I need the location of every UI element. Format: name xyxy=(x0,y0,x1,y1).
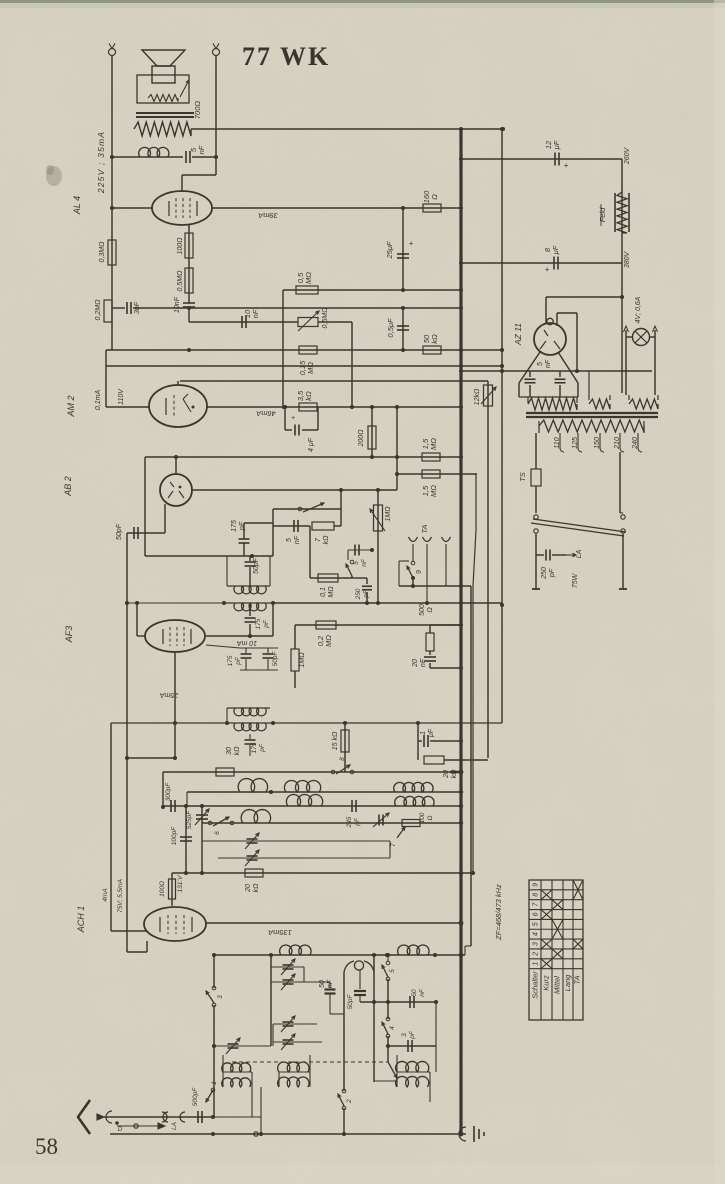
svg-text:3: 3 xyxy=(533,942,540,946)
svg-text:110: 110 xyxy=(554,437,561,448)
wire x163 down xyxy=(162,772,164,807)
transformer HV winding xyxy=(527,397,529,403)
svg-text:100: 100 xyxy=(419,812,426,823)
tube AB2 xyxy=(160,474,192,506)
wire line y772 xyxy=(163,771,450,773)
svg-text:4mA: 4mA xyxy=(102,888,109,901)
svg-text:pF: pF xyxy=(363,589,370,599)
svg-text:3: 3 xyxy=(401,1033,408,1037)
svg-text:Mittel: Mittel xyxy=(553,976,562,994)
svg-text:1: 1 xyxy=(211,1081,218,1085)
svg-text:kΩ: kΩ xyxy=(451,769,458,779)
svg-text:AB 2: AB 2 xyxy=(63,476,73,497)
svg-text:+: + xyxy=(545,265,550,274)
table crosses mittel xyxy=(552,949,563,959)
svg-text:100pF: 100pF xyxy=(171,826,178,845)
pilot lamp 4V 0,6A xyxy=(633,329,650,346)
tap 150 xyxy=(600,433,604,452)
wire AB2 right y490 xyxy=(192,489,397,491)
line y806 xyxy=(163,805,461,807)
capacitor 0,5uF xyxy=(402,308,404,350)
wire 5nF to right terminal xyxy=(192,156,216,158)
wire AZ11 cathode top xyxy=(545,297,547,324)
output transformer box xyxy=(137,75,189,103)
IFT2 coil bottom xyxy=(224,602,273,604)
tap 240 xyxy=(638,433,642,452)
wire AZ11 filament to W2 xyxy=(556,313,558,326)
svg-text:+: + xyxy=(291,415,295,422)
svg-text:260V: 260V xyxy=(624,147,631,166)
TA jack stems xyxy=(445,544,447,586)
capacitor 10nF xyxy=(183,302,195,304)
svg-text:5: 5 xyxy=(537,362,544,366)
line y823 xyxy=(202,822,461,824)
svg-text:7: 7 xyxy=(390,843,397,847)
line y955 xyxy=(214,954,465,956)
svg-text:77 WK: 77 WK xyxy=(242,42,330,71)
capacitor 5nF 2 xyxy=(348,549,372,551)
svg-text:1MΩ: 1MΩ xyxy=(385,506,392,522)
capacitor 50nF xyxy=(329,982,331,988)
svg-text:MΩ: MΩ xyxy=(429,485,438,497)
svg-text:MΩ: MΩ xyxy=(429,438,438,450)
svg-text:0,5μF: 0,5μF xyxy=(386,318,395,338)
switch 5 xyxy=(386,953,390,957)
svg-text:nF: nF xyxy=(361,558,368,567)
svg-text:0,2MΩ: 0,2MΩ xyxy=(95,299,102,321)
rung y526 5nF 7k xyxy=(273,525,310,527)
wire AL4 plate right xyxy=(212,207,461,209)
wire x145 avc xyxy=(144,457,146,556)
line y1046 3pF xyxy=(388,1045,436,1047)
svg-text:MΩ: MΩ xyxy=(306,362,315,374)
svg-text:5: 5 xyxy=(286,538,293,542)
oscillator box right xyxy=(373,955,375,1082)
svg-text:240: 240 xyxy=(632,437,639,450)
tap 125 xyxy=(578,433,582,452)
svg-text:10nF: 10nF xyxy=(174,296,181,313)
resistor 0,5M line y290 xyxy=(283,289,461,291)
resistor 1,5M lower xyxy=(422,470,440,478)
svg-text:210: 210 xyxy=(614,437,621,450)
svg-text:0,5MΩ: 0,5MΩ xyxy=(177,270,184,292)
resistor 50k xyxy=(423,346,441,354)
svg-text:5: 5 xyxy=(353,561,360,565)
tube ACH1 xyxy=(144,907,206,941)
wire AM2 vertical x106 xyxy=(105,366,107,407)
switch 1 xyxy=(211,1088,215,1092)
wire AB2 cathode down xyxy=(164,504,166,533)
svg-text:50: 50 xyxy=(411,989,418,997)
svg-text:50pF: 50pF xyxy=(253,557,260,574)
ground return line xyxy=(110,1133,466,1135)
svg-text:kΩ: kΩ xyxy=(304,391,313,401)
svg-text:TS: TS xyxy=(518,472,527,482)
wire line y625 0,2M xyxy=(295,624,461,626)
wire line y366 xyxy=(105,350,107,366)
coil bf2b xyxy=(286,794,322,806)
svg-text:2: 2 xyxy=(346,1099,353,1104)
svg-text:380V: 380V xyxy=(624,251,631,269)
trimmer pair lower xyxy=(273,1023,317,1025)
svg-text:MΩ: MΩ xyxy=(304,272,313,284)
oscillator coil xyxy=(344,961,354,972)
trimmer t5 xyxy=(214,1045,271,1047)
wire AF3 left xyxy=(137,635,145,637)
capacitor 100pF xyxy=(185,806,187,873)
transformer rect filament winding xyxy=(588,371,590,400)
svg-text:50pF: 50pF xyxy=(347,994,354,1010)
svg-text:Lang: Lang xyxy=(563,974,572,992)
svg-text:25mA: 25mA xyxy=(160,691,180,698)
IFT2 coil top xyxy=(227,585,270,587)
svg-text:Ω: Ω xyxy=(427,607,434,613)
svg-text:nF: nF xyxy=(251,309,260,318)
capacitor 5nF xyxy=(185,151,187,163)
line y873 xyxy=(172,872,473,874)
antenna line xyxy=(104,1116,213,1118)
svg-text:75W: 75W xyxy=(572,572,579,588)
coil osc a xyxy=(280,945,311,955)
svg-text:+: + xyxy=(564,161,569,170)
resistor 0,2M on rail xyxy=(104,300,112,322)
variable cap 525pF xyxy=(201,806,203,873)
svg-text:AF3: AF3 xyxy=(64,626,74,644)
wire AM2 plate right xyxy=(207,406,461,408)
svg-text:150: 150 xyxy=(594,437,601,449)
svg-text:1: 1 xyxy=(420,731,427,735)
resistor 0,15M xyxy=(299,346,317,354)
svg-text:Ω: Ω xyxy=(427,815,434,820)
coil row connectors xyxy=(222,1072,224,1087)
svg-text:175: 175 xyxy=(227,655,234,666)
wire x261 xyxy=(260,1087,262,1134)
mains leads xyxy=(535,534,537,589)
coil bf2c xyxy=(241,810,270,823)
svg-text:pF: pF xyxy=(235,656,242,666)
svg-text:6: 6 xyxy=(214,831,221,835)
IFT3 coil top xyxy=(227,707,270,709)
anode bar xyxy=(519,396,578,398)
svg-text:Kurz: Kurz xyxy=(542,975,551,991)
svg-text:300pF: 300pF xyxy=(165,782,172,801)
resistor 500 ohm xyxy=(429,625,431,633)
svg-text:kΩ: kΩ xyxy=(253,883,260,893)
IF transformer 2 cap 175pF xyxy=(243,523,245,539)
svg-text:20: 20 xyxy=(412,659,419,668)
svg-text:225V ; 35mA: 225V ; 35mA xyxy=(96,131,106,194)
svg-text:0,1: 0,1 xyxy=(320,587,327,597)
wire AL4 cathode left xyxy=(112,207,152,209)
mechanical link dashed xyxy=(232,1061,388,1063)
trimmer pair upper xyxy=(271,966,304,968)
svg-text:20: 20 xyxy=(245,884,252,893)
svg-text:kΩ: kΩ xyxy=(430,334,439,344)
volume potentiometer 1M xyxy=(377,490,379,603)
wire x187 xyxy=(186,792,188,806)
wire trimmer to plate line xyxy=(318,321,352,323)
svg-text:1MΩ: 1MΩ xyxy=(299,652,306,668)
svg-text:75V; 5,5mA: 75V; 5,5mA xyxy=(117,879,124,913)
capacitor 1uF xyxy=(417,723,419,741)
wire coil line to 5nF xyxy=(112,156,183,158)
resistor in speaker box xyxy=(148,95,178,102)
wire AZ11 anodes xyxy=(519,352,540,383)
wire y603 xyxy=(127,602,224,604)
left rail to cathode xyxy=(126,758,128,952)
field winding resistor primary xyxy=(134,122,191,136)
IFT3 coil bottom xyxy=(111,722,502,724)
resistor 100 ohm under AL4 xyxy=(188,225,190,303)
capacitor 10 nF xyxy=(241,316,243,328)
svg-text:2: 2 xyxy=(533,952,540,957)
wire ACH1 plate xyxy=(205,922,461,924)
mains switch xyxy=(534,515,538,519)
tube AL4 xyxy=(152,191,212,225)
svg-text:ACH 1: ACH 1 xyxy=(76,906,86,934)
svg-text:nF: nF xyxy=(294,535,301,544)
svg-text:4 μF: 4 μF xyxy=(308,437,315,452)
antenna lower line xyxy=(117,1125,158,1127)
left rail x127 xyxy=(126,533,128,758)
wire x430 bottom xyxy=(429,1087,431,1102)
capacitor 50pF af3 xyxy=(267,648,269,653)
svg-text:525pF: 525pF xyxy=(186,810,193,829)
potentiometer 12k xyxy=(487,381,489,758)
fuse TS xyxy=(535,433,537,469)
svg-text:100Ω: 100Ω xyxy=(177,237,184,255)
oscillator box left xyxy=(343,972,345,1082)
switch 9 xyxy=(412,544,414,561)
wire right terminal down xyxy=(215,56,217,175)
svg-text:AL 4: AL 4 xyxy=(72,196,82,215)
svg-text:6: 6 xyxy=(533,912,540,916)
wire y758 xyxy=(127,757,175,759)
wire tap210 to switch xyxy=(619,452,621,513)
wire ACH1 left xyxy=(110,723,112,931)
svg-text:3: 3 xyxy=(217,995,224,999)
AF3 cathode down xyxy=(174,652,176,758)
svg-text:5: 5 xyxy=(389,969,396,973)
svg-text:5: 5 xyxy=(533,922,540,926)
resistor 100ohm grid ACH1 xyxy=(171,873,173,906)
rectifier AZ11 xyxy=(534,323,566,355)
wire AM2 cathode left xyxy=(106,406,149,408)
svg-text:131:V: 131:V xyxy=(177,875,184,893)
svg-text:9: 9 xyxy=(416,570,423,574)
cathode bar xyxy=(240,647,278,649)
svg-text:pF: pF xyxy=(354,817,361,827)
wire x271 xyxy=(270,955,272,1046)
svg-text:0,1mA: 0,1mA xyxy=(95,390,102,411)
svg-text:250: 250 xyxy=(355,588,362,600)
transformer 4V winding xyxy=(628,395,630,400)
svg-text:175: 175 xyxy=(251,742,258,753)
wire line y381 AM2 grid xyxy=(177,381,179,385)
wire x214 chain xyxy=(213,955,215,988)
svg-text:200Ω: 200Ω xyxy=(358,429,365,448)
svg-text:AZ 11: AZ 11 xyxy=(513,323,523,346)
svg-text:12kΩ: 12kΩ xyxy=(474,388,481,405)
trimmer rung 1 xyxy=(202,840,390,842)
smoothing coil xyxy=(139,147,169,157)
tap 210 xyxy=(620,433,624,452)
svg-text:μF: μF xyxy=(428,728,435,738)
capacitor 500pF xyxy=(197,1111,199,1123)
capacitor 245pF xyxy=(351,800,353,812)
wire 260V rail x622 xyxy=(621,159,623,393)
terminal left xyxy=(109,49,116,56)
wire y556 xyxy=(145,555,273,557)
wire line y322 10nF2 xyxy=(189,321,298,323)
svg-text:110V: 110V xyxy=(118,388,125,405)
capacitor 3nF stub xyxy=(112,307,125,309)
switch 2 xyxy=(342,1089,346,1093)
table crosses ta xyxy=(573,939,583,949)
antenna jack symbols xyxy=(106,1111,112,1123)
resistor 20k bf xyxy=(245,869,263,877)
wire line y599 to right xyxy=(273,602,502,604)
wire x471 vertical xyxy=(470,586,472,946)
coil bf3b xyxy=(395,796,434,806)
svg-text:MΩ: MΩ xyxy=(324,635,333,647)
potentiometer 0,5M trimmer xyxy=(298,318,318,327)
switch x352 xyxy=(350,560,354,564)
capacitor 250pF xyxy=(366,578,368,584)
svg-text:Ω: Ω xyxy=(430,194,439,200)
tube AM2 xyxy=(149,385,207,427)
svg-text:μF: μF xyxy=(551,245,560,255)
capacitor 50pF osc xyxy=(359,970,361,989)
trimmer right xyxy=(378,815,380,826)
capacitor 175pF plate xyxy=(249,603,251,616)
switch 7 xyxy=(397,827,405,838)
svg-text:LA: LA xyxy=(576,549,583,558)
resistor 200 ohm xyxy=(371,407,373,457)
capacitor 175pF ift3 xyxy=(249,734,251,739)
svg-text:9: 9 xyxy=(533,883,540,887)
capacitor 300pF xyxy=(170,800,172,812)
switch 8 xyxy=(331,770,335,774)
svg-text:15 kΩ: 15 kΩ xyxy=(332,731,339,750)
wire B+ top line xyxy=(191,128,503,130)
wire line y457 xyxy=(145,456,461,458)
svg-text:46mA: 46mA xyxy=(256,409,276,418)
capacitor 25uF xyxy=(402,208,404,290)
svg-text:MΩ: MΩ xyxy=(328,586,335,598)
resistor 30k xyxy=(216,768,234,776)
svg-text:nF: nF xyxy=(545,359,552,368)
tap 110 xyxy=(560,433,564,452)
svg-text:nF: nF xyxy=(327,979,334,988)
coil bf1a xyxy=(238,779,267,792)
transformer core xyxy=(526,412,658,414)
tube AF3 xyxy=(145,620,205,652)
transformer core lines xyxy=(136,112,194,114)
resistor 1M af3 xyxy=(294,625,296,649)
resistor 100 ohm bf xyxy=(402,820,420,827)
resistor 15k xyxy=(344,723,346,772)
svg-text:pF: pF xyxy=(259,743,266,753)
svg-text:ZF=468/473 kHz: ZF=468/473 kHz xyxy=(494,884,503,941)
TA jacks xyxy=(409,537,418,542)
coil bf2a xyxy=(284,780,320,792)
capacitor 175pF af3 xyxy=(245,648,247,653)
svg-text:58: 58 xyxy=(35,1134,58,1159)
schalter table xyxy=(529,880,583,1020)
switch in speaker box xyxy=(180,80,189,97)
svg-text:nF: nF xyxy=(420,658,427,667)
svg-text:39mA: 39mA xyxy=(258,211,278,220)
ground symbol xyxy=(459,1127,466,1141)
switch 6 xyxy=(208,821,212,825)
svg-text:0,3MΩ: 0,3MΩ xyxy=(99,241,106,263)
switch 4 xyxy=(386,1017,390,1021)
capacitor 20nF xyxy=(424,656,436,658)
transformer primary winding xyxy=(539,420,644,432)
capacitor 5nF pair xyxy=(529,371,531,377)
resistor 0,3M on rail xyxy=(108,240,116,265)
svg-text:1: 1 xyxy=(533,962,540,966)
svg-text:125: 125 xyxy=(572,437,579,449)
svg-text:nF: nF xyxy=(197,145,206,154)
bus main vertical xyxy=(459,128,462,1134)
capacitor 8uF line xyxy=(461,262,622,264)
svg-text:500: 500 xyxy=(419,604,426,616)
svg-text:pF: pF xyxy=(409,1030,416,1040)
speaker magnet xyxy=(152,66,175,83)
wire line y350 xyxy=(106,349,502,351)
resistor 160 ohm xyxy=(423,204,441,212)
svg-text:500pF: 500pF xyxy=(192,1087,199,1106)
coil osc b xyxy=(398,945,429,955)
svg-text:pF: pF xyxy=(263,619,270,629)
svg-text:8: 8 xyxy=(339,757,346,761)
resistor 0,2M xyxy=(316,621,336,629)
svg-text:+: + xyxy=(409,239,414,248)
wire x502 vertical xyxy=(501,129,503,723)
trimmer rung 2 xyxy=(218,857,390,859)
bottom coil row 2 xyxy=(222,1078,251,1087)
svg-text:250: 250 xyxy=(541,567,548,580)
svg-text:TA: TA xyxy=(420,524,429,533)
svg-text:175: 175 xyxy=(231,520,238,532)
wire AB2 top stub xyxy=(175,457,177,474)
svg-text:nF: nF xyxy=(419,988,426,997)
svg-text:4: 4 xyxy=(533,932,540,936)
switch rung y509 xyxy=(273,508,341,510)
svg-text:8: 8 xyxy=(533,893,540,897)
switch 3 xyxy=(212,986,216,990)
svg-text:μF: μF xyxy=(552,140,561,150)
svg-text:0,5MΩ: 0,5MΩ xyxy=(322,307,329,329)
wire left rail top xyxy=(111,56,113,350)
svg-text:25μF: 25μF xyxy=(385,241,394,259)
wire x436 down xyxy=(435,1002,437,1072)
line y1002 xyxy=(360,1001,436,1003)
svg-text:D: D xyxy=(118,1127,123,1133)
svg-text:4V; 0,6A: 4V; 0,6A xyxy=(635,296,642,323)
svg-text:135mA: 135mA xyxy=(268,928,292,937)
svg-text:175: 175 xyxy=(255,618,262,629)
speaker cone xyxy=(142,50,185,66)
svg-text:4: 4 xyxy=(389,1026,396,1030)
wire AF3 plate xyxy=(206,635,273,637)
capacitor 12uF line xyxy=(461,158,622,160)
table crosses kurz xyxy=(541,959,552,969)
antenna symbol xyxy=(78,1100,90,1134)
wire x475 vertical xyxy=(475,474,477,530)
